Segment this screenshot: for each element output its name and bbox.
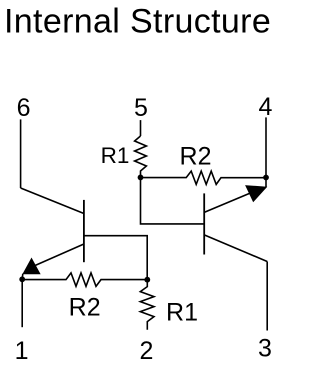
node E2 [263, 175, 269, 181]
svg-text:2: 2 [139, 337, 153, 365]
svg-text:4: 4 [259, 93, 273, 121]
resistor R1 (top) [135, 136, 147, 177]
transistor Q1 base bar [83, 200, 85, 262]
wire Q1 collector diagonal [21, 188, 84, 214]
svg-text:R2: R2 [69, 294, 101, 322]
wire Q2 emitter stub [265, 178, 267, 188]
resistor R2 (bottom) [22, 273, 147, 286]
svg-text:Internal Structure: Internal Structure [4, 3, 271, 41]
Q2 emitter arrow (PNP) [246, 186, 266, 202]
node B2 [138, 175, 144, 181]
wire pin 1 [21, 279, 23, 327]
svg-text:R2: R2 [180, 143, 212, 171]
node B1 [144, 277, 150, 283]
Q1 emitter arrow (PNP) [23, 259, 40, 274]
wire Q1 emitter stub [21, 274, 24, 280]
svg-text:3: 3 [258, 335, 272, 363]
wire Q1 base to node B1 [84, 236, 147, 280]
node E1 [19, 276, 25, 282]
wire pin 6 [20, 119, 22, 188]
transistor Q2 base bar [203, 193, 205, 254]
svg-text:R1: R1 [166, 299, 198, 327]
wire pin 5 [140, 120, 142, 136]
wire Q2 emitter diagonal [204, 193, 251, 213]
svg-text:6: 6 [17, 94, 31, 122]
svg-text:5: 5 [134, 94, 148, 122]
wire pin 4 [265, 117, 267, 177]
resistor R1 (bottom) [140, 280, 154, 330]
wire Q1 emitter diagonal [31, 244, 84, 268]
resistor R2 (top) [141, 171, 267, 184]
svg-text:1: 1 [15, 337, 29, 365]
wire Q2 base from node B2 [141, 177, 205, 224]
wire Q2 collector diagonal [204, 235, 267, 262]
wire pin 3 [266, 262, 268, 331]
svg-text:R1: R1 [101, 143, 130, 168]
